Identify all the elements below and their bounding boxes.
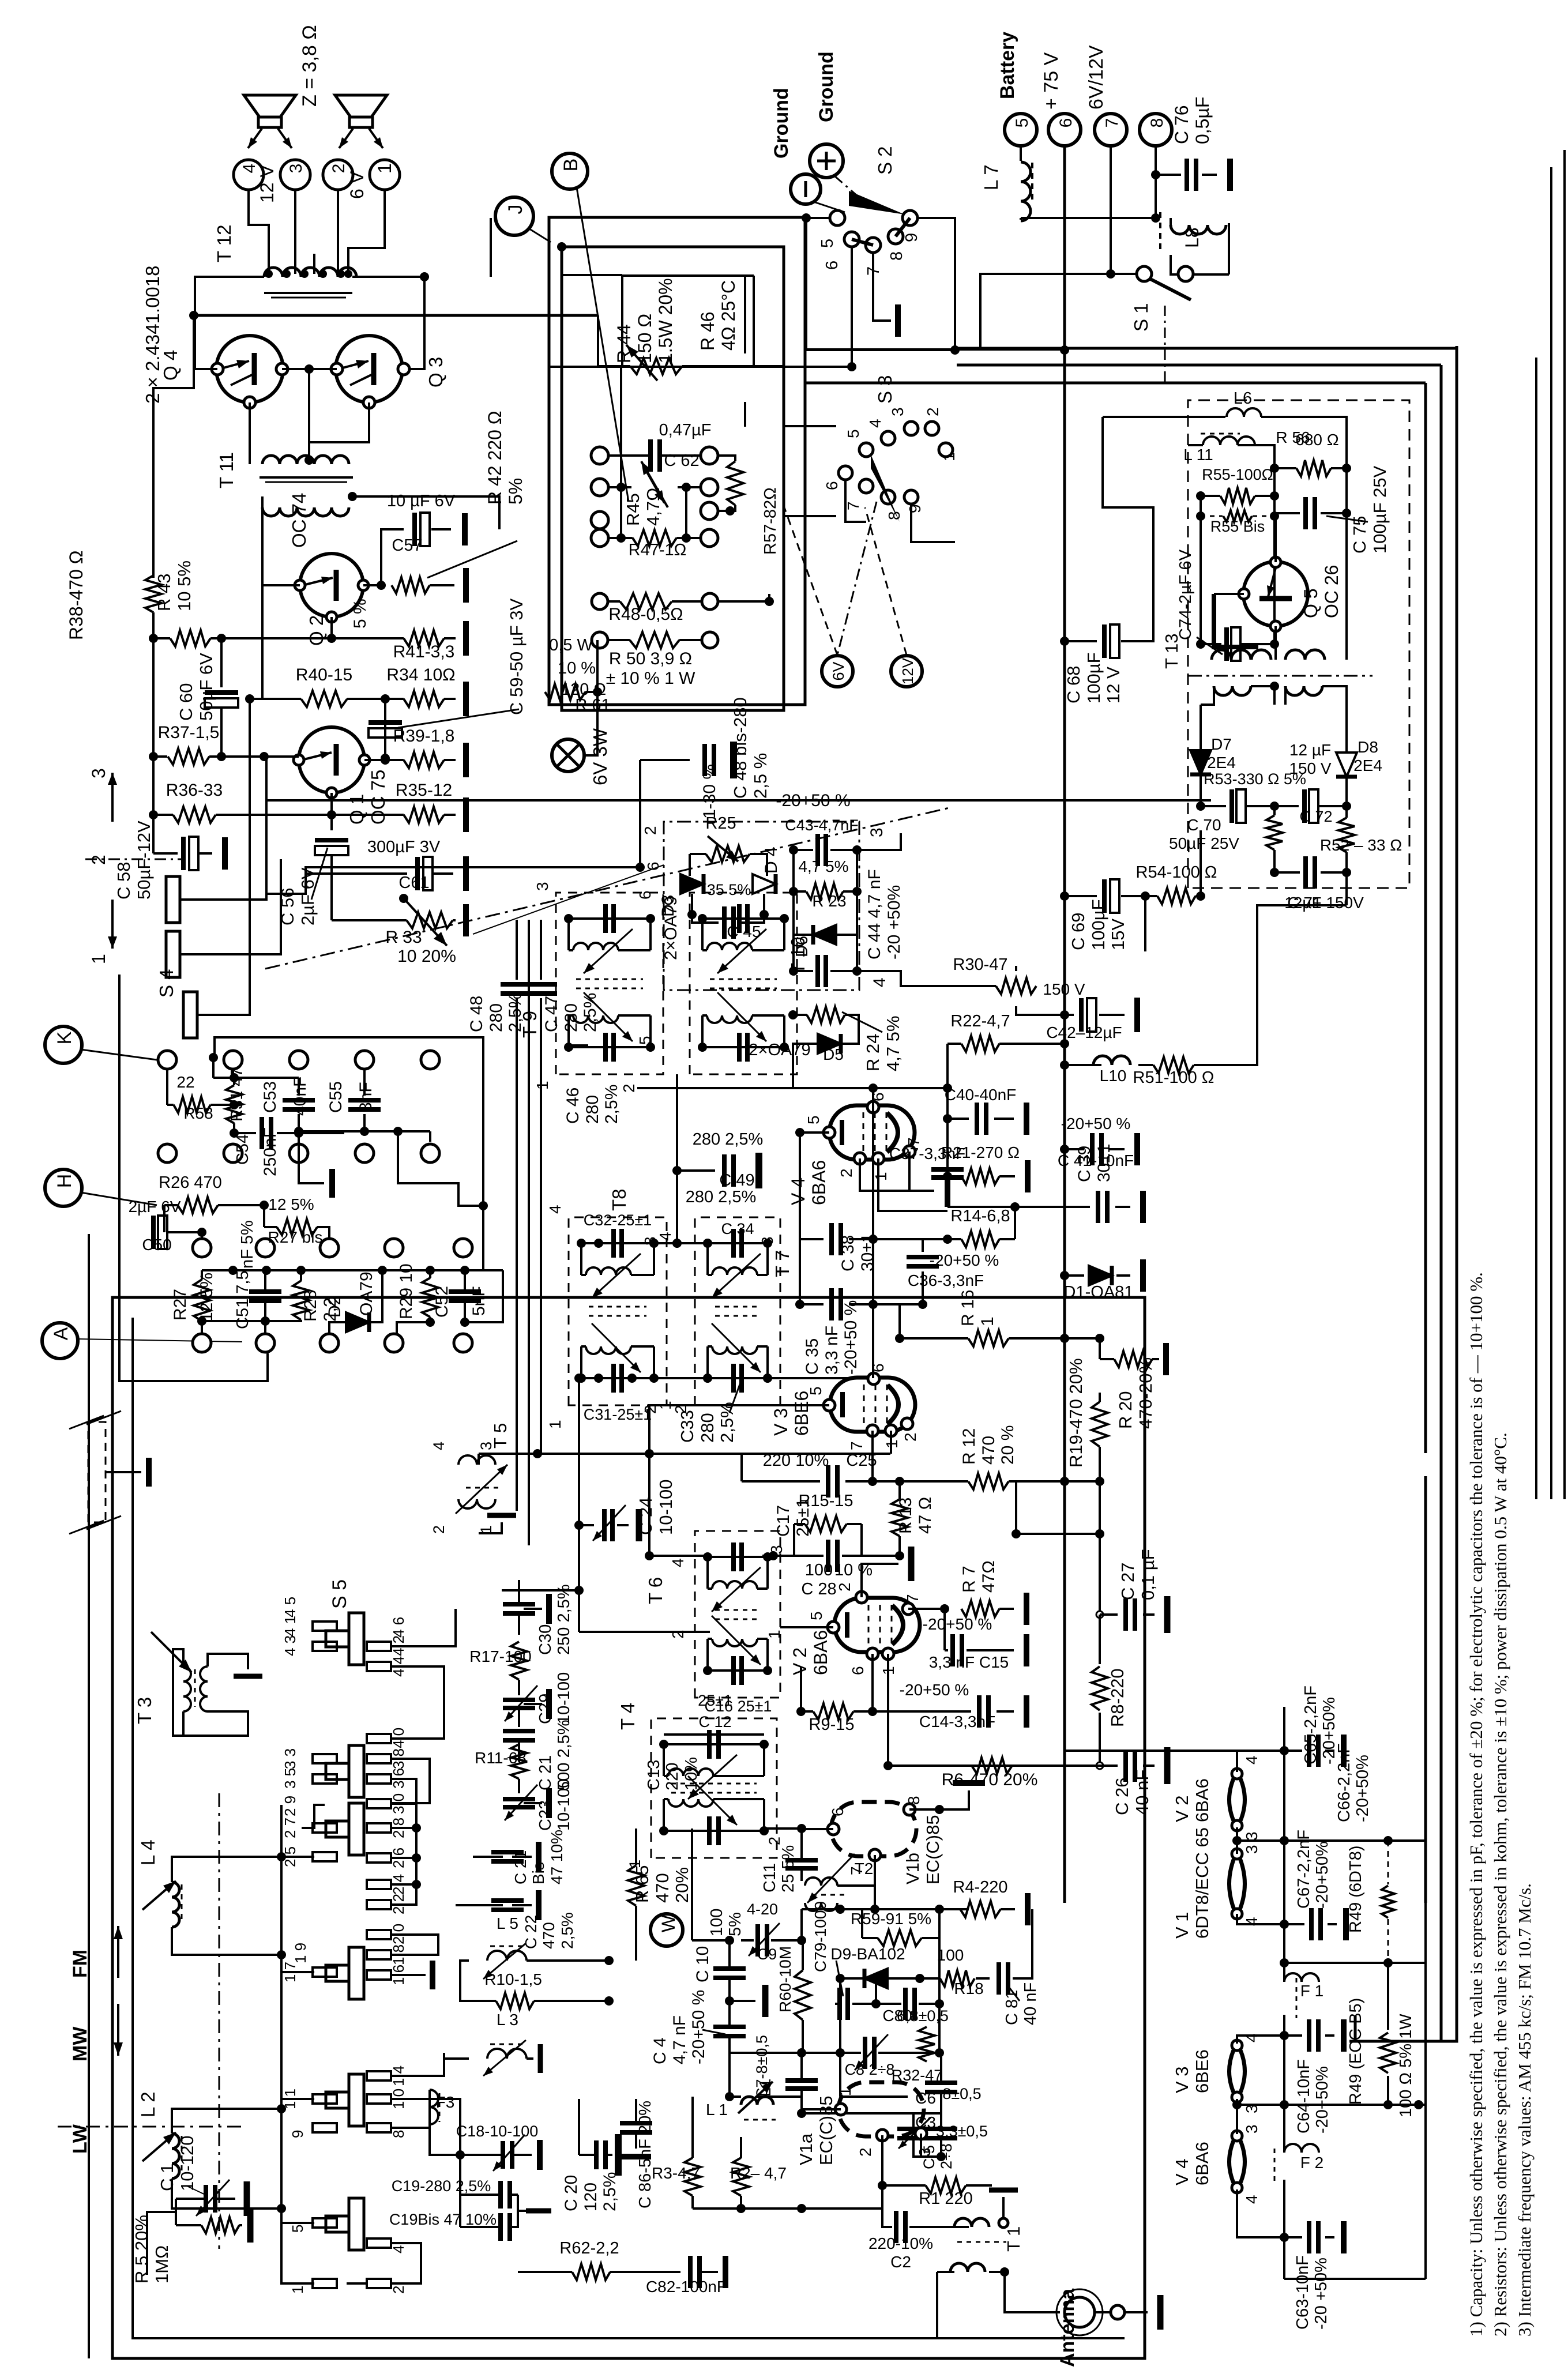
wire R44 left vertical [597,315,599,366]
svg-text:6BE6: 6BE6 [1192,2049,1212,2093]
svg-text:Antenna: Antenna [1056,2288,1078,2367]
leader A [77,1339,242,1342]
svg-text:-20+50 %: -20+50 % [923,1615,992,1633]
dash-dot S1 to rail [1164,306,1166,383]
svg-text:R39-1,8: R39-1,8 [393,727,455,746]
svg-text:470: 470 [540,1922,558,1949]
svg-text:5: 5 [844,429,862,438]
wire row y1965 [234,1132,256,1134]
wire R25 row [690,853,706,855]
capacitor C27 0.1uF [1099,1534,1101,1615]
svg-text:R 46: R 46 [697,311,718,351]
svg-text:C 10: C 10 [693,1946,712,1982]
S3 wiper arrow [871,454,900,522]
svg-text:R37-1,5: R37-1,5 [158,723,220,742]
capacitor C81 40nF [997,1962,1001,1995]
svg-text:V 2: V 2 [1172,1795,1192,1822]
wire T3 loop [173,1649,248,1736]
wire Q4 emitter down [249,402,251,464]
svg-text:2 7: 2 7 [281,1818,299,1838]
svg-text:2: 2 [430,1525,448,1534]
svg-text:3: 3 [287,164,306,174]
svg-text:2) Resistors: Unless otherwis: 2) Resistors: Unless otherwise specified… [1490,1432,1510,2337]
wire row y1962 right [299,1130,430,1133]
L4 core dash [181,1884,183,1921]
svg-text:C29: C29 [536,1694,555,1724]
svg-text:R31 47: R31 47 [228,1067,246,1122]
svg-text:R 5 20%: R 5 20% [131,2215,152,2283]
wire left column x2082 [1199,496,1202,644]
diode D9-BA102 [864,1969,888,1988]
wire C62 row [610,454,650,457]
svg-text:R52 – 33 Ω: R52 – 33 Ω [1320,836,1402,854]
svg-text:2µF 6V: 2µF 6V [298,867,318,925]
svg-text:R11-68: R11-68 [475,1749,527,1767]
terminal 4 [234,160,264,190]
resistor R28 2.2 [293,1281,309,1320]
capacitor C47 280 2.5% [525,982,557,987]
svg-text:C 28: C 28 [801,1580,836,1598]
wire L3 right to ground [527,2057,533,2060]
svg-text:R 24: R 24 [863,1034,883,1071]
svg-text:D8: D8 [1358,738,1378,756]
wire x1457 riser [839,1978,841,2097]
svg-text:-20+50 %: -20+50 % [841,1300,860,1375]
wire V1 heater [1236,1841,1238,1854]
svg-text:T 1: T 1 [1003,2226,1024,2252]
svg-text:3: 3 [88,768,109,778]
svg-text:5 %: 5 % [351,599,370,629]
svg-text:280 2,5%: 280 2,5% [686,1188,757,1206]
Q2 base bar [334,570,339,601]
svg-text:220-10%: 220-10% [868,2234,933,2252]
tube V2 heater [1229,1771,1245,1828]
svg-text:C11: C11 [761,1863,779,1893]
tube V3 6BE6 [830,1378,915,1432]
leader C74 [1197,637,1223,654]
terminal 2 [323,160,353,190]
svg-text:1) Capacity: Unless otherwise: 1) Capacity: Unless otherwise specified,… [1466,1272,1486,2337]
svg-text:C 72: C 72 [1299,808,1332,825]
svg-text:Q 2: Q 2 [306,615,327,646]
svg-text:C 26: C 26 [1112,1778,1132,1815]
S2 contact 7 [866,238,881,253]
svg-text:-20+50 %: -20+50 % [689,1990,708,2064]
svg-text:2 9: 2 9 [281,1796,299,1816]
svg-text:T 7: T 7 [772,1250,793,1277]
wire V4 grid pin5 [800,1131,829,1134]
wire C37 top [946,1088,949,1164]
diode D2 OA79 [346,1312,369,1332]
resistor R62-2.2 [572,2264,610,2280]
svg-text:R29 10: R29 10 [397,1263,416,1319]
svg-text:C32-25±1: C32-25±1 [584,1212,652,1229]
wire y3365 from W [692,1939,730,1942]
svg-text:C13: C13 [645,1760,663,1790]
wire T2 secondary to V1b pin7 [837,1855,875,1886]
svg-text:4: 4 [866,419,884,428]
svg-text:T8: T8 [608,1188,630,1211]
top tuning capacitor [702,917,784,920]
resistor R6-470 20% on y3062 [972,1758,1012,1774]
svg-text:C 70: C 70 [1187,816,1221,834]
tuning arrow top [592,1254,641,1298]
Q3 base bar [371,353,377,385]
wire R45 row [610,486,631,488]
F2 dash core [1274,2149,1276,2185]
resistor R23 4.7 5% [806,883,843,900]
svg-text:2: 2 [901,1432,919,1442]
wire main bus rail 3 vertical run [1424,383,1427,1453]
wire x1762 up (R22 etc) [1015,1481,1017,1534]
svg-text:LW: LW [69,2124,91,2154]
Q1 emitter arrow [302,753,332,760]
svg-text:A: A [50,1327,72,1340]
svg-text:V1b: V1b [903,1853,923,1884]
svg-text:150 Ω: 150 Ω [634,314,655,363]
svg-text:20%: 20% [672,1867,692,1903]
svg-text:L 11: L 11 [1183,446,1213,464]
wire row y2203 [202,1269,503,1271]
transistor Q4 (output) [216,336,283,402]
svg-text:R35-12: R35-12 [396,781,452,800]
capacitor C48 280 2.5% [501,982,533,987]
resistor R39-1.8 [404,752,444,768]
transformer T2 [805,1878,837,1886]
svg-text:R18: R18 [954,1980,983,1997]
svg-text:12 5%: 12 5% [268,1195,314,1213]
transformer T1 primary [954,2218,989,2227]
top tuning capacitor [708,1242,768,1244]
wire T8-T7 top row [581,1242,768,1244]
svg-text:L6: L6 [1234,389,1252,408]
wire main bus rail 1 vertical run [1349,346,1457,2041]
wire right page border outer [1563,150,1566,1499]
wire R30 row [901,971,996,986]
svg-text:1: 1 [533,1081,551,1090]
choke L7 [1020,146,1022,161]
wire T4 bottom to V1b [764,1827,802,1830]
wire D3/D4 to C45 [691,894,693,915]
C57 ground [431,528,451,531]
svg-text:9: 9 [903,233,921,242]
V3 pins [868,1373,879,1384]
svg-text:2,5%: 2,5% [717,1402,737,1443]
wire K bus [157,1059,158,1061]
resistor R27 12 5% [194,1280,210,1321]
capacitor C86-5nF [620,2121,652,2125]
svg-text:L 1: L 1 [706,2101,728,2119]
svg-text:R1 220: R1 220 [919,2189,973,2208]
plate arc [888,1385,898,1424]
svg-text:6: 6 [869,1092,887,1101]
S5 group 3 (25 27 29 / 26 28 30) [313,1823,337,1833]
wire T5 left [479,1453,537,1455]
transformer T11 secondary [262,507,349,516]
svg-text:7: 7 [1103,118,1122,128]
resistor R22-4.7 [961,1036,999,1052]
leader C33 [730,1381,741,1413]
svg-text:6: 6 [823,481,841,490]
L2 core dash [181,2136,183,2173]
capacitor C54 250nF [260,1117,264,1149]
resistor R52-33 [1338,818,1355,852]
svg-text:8: 8 [1148,118,1167,128]
svg-text:Q 3: Q 3 [425,357,446,387]
C86 ground [621,2154,651,2159]
svg-text:8: 8 [888,251,906,261]
antenna connector [1065,2297,1095,2327]
svg-text:6: 6 [849,1666,867,1675]
terminal 1 [370,160,400,190]
wire block bottom out [1345,872,1348,905]
svg-text:4: 4 [546,1205,564,1214]
svg-text:250nF: 250nF [261,1127,280,1176]
resistor R53-330 5% [1266,815,1283,850]
leader B [577,187,629,502]
T5 ground [479,1522,502,1533]
S2 blade 6-7 [852,239,873,245]
svg-text:C 62: C 62 [664,452,699,470]
svg-text:L 7: L 7 [980,164,1002,190]
R44 bracket loop [622,274,754,277]
diode D1-OA81 [1065,1274,1084,1277]
resistor R51-100 [1153,1057,1194,1073]
switch S1 [1137,266,1152,281]
svg-text:C79-1000: C79-1000 [811,1901,829,1972]
dash-dot switch line [85,859,185,860]
capacitor C46 280 2.5% [567,1044,588,1047]
svg-text:MW: MW [69,2026,91,2061]
svg-text:C 44 4,7 nF: C 44 4,7 nF [865,869,884,960]
wire C1/R5 left join [175,2199,177,2225]
variable capacitor C8 2:8 [863,2037,867,2069]
wire V3 heater top [1237,2036,1284,2044]
wire x1004 riser [578,1378,580,1632]
variable capacitor C1 10-120 [204,2185,208,2213]
resistor R17-100 [511,1642,527,1680]
resistor R42 220 [392,577,430,593]
svg-text:10-100: 10-100 [555,1779,573,1831]
S5 group 2 (33 35 / 34 36 38 40) [313,1754,337,1763]
resistor R12 470 20% [968,1473,1009,1489]
svg-text:680 Ω: 680 Ω [1295,431,1338,449]
svg-text:R60-10M: R60-10M [776,1946,794,2012]
svg-text:8: 8 [390,2130,407,2138]
L3 dash core [490,2044,526,2045]
svg-text:280: 280 [697,1413,717,1443]
bottom coil [712,1639,757,1646]
svg-text:S 3: S 3 [874,375,896,404]
resistor R65 470 20% [628,1865,644,1906]
bottom tuning capacitor [708,1377,768,1379]
wire heater bus bottom [1284,2278,1426,2280]
svg-text:C61: C61 [398,874,429,892]
svg-text:R14-6,8: R14-6,8 [950,1207,1010,1225]
terminal 8 [1140,114,1172,146]
capacitor C76 0.5uF [1156,174,1181,176]
svg-text:2,5%: 2,5% [558,1912,576,1949]
svg-text:L 3: L 3 [497,2011,518,2029]
svg-text:R21-270 Ω: R21-270 Ω [941,1143,1020,1161]
leader R42 [427,541,517,578]
top coil [567,919,570,950]
resistor R15-15 bracket [805,1516,847,1532]
dash-dot leader C59 line [265,807,952,969]
svg-text:R58: R58 [183,1104,213,1122]
dash-dot wiper line S3 [837,502,877,655]
svg-text:EC(C)85: EC(C)85 [923,1815,943,1884]
svg-text:2×OA79: 2×OA79 [661,896,680,960]
wire T11 sec left down to Q2 [261,496,264,699]
capacitor C80 6.8+-0.5 [903,1988,908,2020]
svg-text:OC 26: OC 26 [1321,565,1342,618]
svg-text:R 50 3,9 Ω: R 50 3,9 Ω [609,649,692,668]
coil L11 [1203,437,1255,445]
wire R27 bottom joint [202,1320,265,1322]
capacitor C71 12uF 150V [1303,856,1308,889]
resistor R61 120ohm [545,684,585,700]
svg-text:40 nF: 40 nF [1132,1770,1152,1815]
capacitor C72 [1302,789,1307,823]
svg-text:C14-3,3nF: C14-3,3nF [919,1713,995,1730]
wire bottom y3830 [693,2207,882,2210]
resistor R34 10ohm [404,691,444,707]
svg-text:2: 2 [669,1630,687,1639]
bottom tuning capacitor [569,1046,650,1048]
resistor R46 (thermistor) [727,461,743,505]
resistor R2-4.7 [733,2158,749,2196]
svg-text:1: 1 [88,954,109,964]
svg-text:220 10%: 220 10% [763,1451,829,1470]
detector dash-dot box [664,822,859,990]
C76 ground [1202,174,1217,176]
electrolytic C57 [381,529,404,585]
svg-text:2,5%: 2,5% [600,2172,619,2211]
coil L2 variable [172,2134,179,2179]
terminal 5 battery [1005,114,1037,146]
svg-text:J: J [505,205,527,215]
svg-text:R 61: R 61 [575,696,610,714]
svg-text:5: 5 [1013,118,1032,128]
wire contact7 to ground [873,253,891,321]
electrolytic C58 50uF 12V [153,852,178,855]
T1 ground stub [1002,2197,1005,2218]
svg-text:-20+50 %: -20+50 % [930,1251,999,1269]
wire bottom row to V3 pin6 riser [792,1377,794,1379]
svg-text:R45: R45 [623,493,643,526]
svg-text:6 V: 6 V [347,171,367,199]
resistor R19-470 20% [1092,1402,1108,1447]
resistor R41-3.3 [404,630,444,646]
svg-text:R4-220: R4-220 [953,1878,1007,1897]
S5 right bus verticals [391,1803,416,1805]
svg-text:1.5W 20%: 1.5W 20% [655,278,676,363]
svg-text:R47-1Ω: R47-1Ω [629,541,687,559]
electrolytic C70 50uF 25V [1229,789,1234,823]
T13 upper coils [1212,650,1251,660]
coil F1 [1284,1973,1319,1982]
electrolytic C74-2uF 6V [1224,627,1229,661]
svg-text:W: W [658,1914,679,1932]
S5 lower right wires [391,1935,438,1955]
wire T12 tap [313,254,315,274]
coil L4 variable [172,1882,179,1927]
svg-text:280 2,5%: 280 2,5% [693,1130,764,1149]
cathode bar [840,1392,845,1417]
svg-text:4Ω 25°C: 4Ω 25°C [718,280,739,351]
svg-text:C 76: C 76 [1171,105,1192,144]
svg-text:280: 280 [583,1095,602,1124]
capacitor C40-40nF [947,1118,969,1120]
svg-text:3: 3 [768,1545,785,1554]
svg-text:6BA6: 6BA6 [809,1160,829,1205]
svg-text:150 V: 150 V [1043,980,1085,998]
svg-text:-20+50 %: -20+50 % [900,1681,969,1699]
capacitor C14-3.3nF [873,1710,971,1713]
wire x1174 T9 to T7 [676,1074,678,1243]
circle W [650,1914,683,1946]
S5 group 1 (41 43 45 / 42 44 46) [313,1621,337,1631]
wire Q3 emitter down [309,402,369,442]
S2 contact 9 [903,210,918,225]
svg-text:R48-0,5Ω: R48-0,5Ω [608,605,683,624]
T5 secondary [458,1499,495,1508]
svg-text:R2– 4,7: R2– 4,7 [730,2164,787,2182]
wire y3404 bus [1284,1962,1426,1964]
wire T1 sec to antenna [1005,2272,1060,2312]
svg-text:100 Ω 5% 1W: 100 Ω 5% 1W [1397,2014,1415,2117]
tuning arrow top [717,929,766,973]
T3 tuning arrow [151,1632,191,1672]
svg-text:8: 8 [885,511,903,520]
capacitor C42-12uF 150V [1065,1014,1074,1016]
svg-text:R 65: R 65 [632,1865,652,1903]
svg-text:C55: C55 [326,1081,345,1113]
Q3 collector lead [350,374,374,385]
top tuning capacitor [708,1556,768,1558]
svg-text:1MΩ: 1MΩ [152,2245,172,2283]
svg-text:R17-100: R17-100 [469,1647,531,1665]
transformer T12 core lines [264,292,352,294]
svg-text:R49 (6DT8): R49 (6DT8) [1347,1846,1365,1933]
resistor R7 47ohm [961,1601,999,1617]
svg-text:C23: C23 [536,1800,555,1831]
svg-text:15V: 15V [1108,919,1128,950]
svg-text:10 5%: 10 5% [174,560,194,611]
wire tuner chassis box [112,1297,1145,2358]
wire Q2 right to C57 junction [363,584,381,586]
svg-text:5: 5 [818,239,837,248]
electrolytic C60 50uF 6V [205,690,238,695]
svg-text:Q 4: Q 4 [160,350,181,381]
transformer T11 primary [262,456,349,464]
svg-text:C42–12µF: C42–12µF [1046,1024,1122,1041]
core dashed lines [576,979,643,980]
svg-text:10-100: 10-100 [656,1479,676,1535]
V1a pins [835,2104,847,2115]
svg-text:2µF 6V: 2µF 6V [129,1198,181,1216]
svg-text:C 12: C 12 [698,1713,731,1730]
wire long bus y1388 [265,799,1211,802]
svg-text:3 3: 3 3 [281,1748,299,1769]
electrolytic C56 2uF 6V [315,838,348,842]
svg-text:T 13: T 13 [1161,634,1182,669]
core dashed lines [671,1783,757,1785]
leader J [528,228,551,242]
svg-text:1: 1 [836,2087,854,2096]
svg-text:4,7Ω: 4,7Ω [643,488,663,526]
